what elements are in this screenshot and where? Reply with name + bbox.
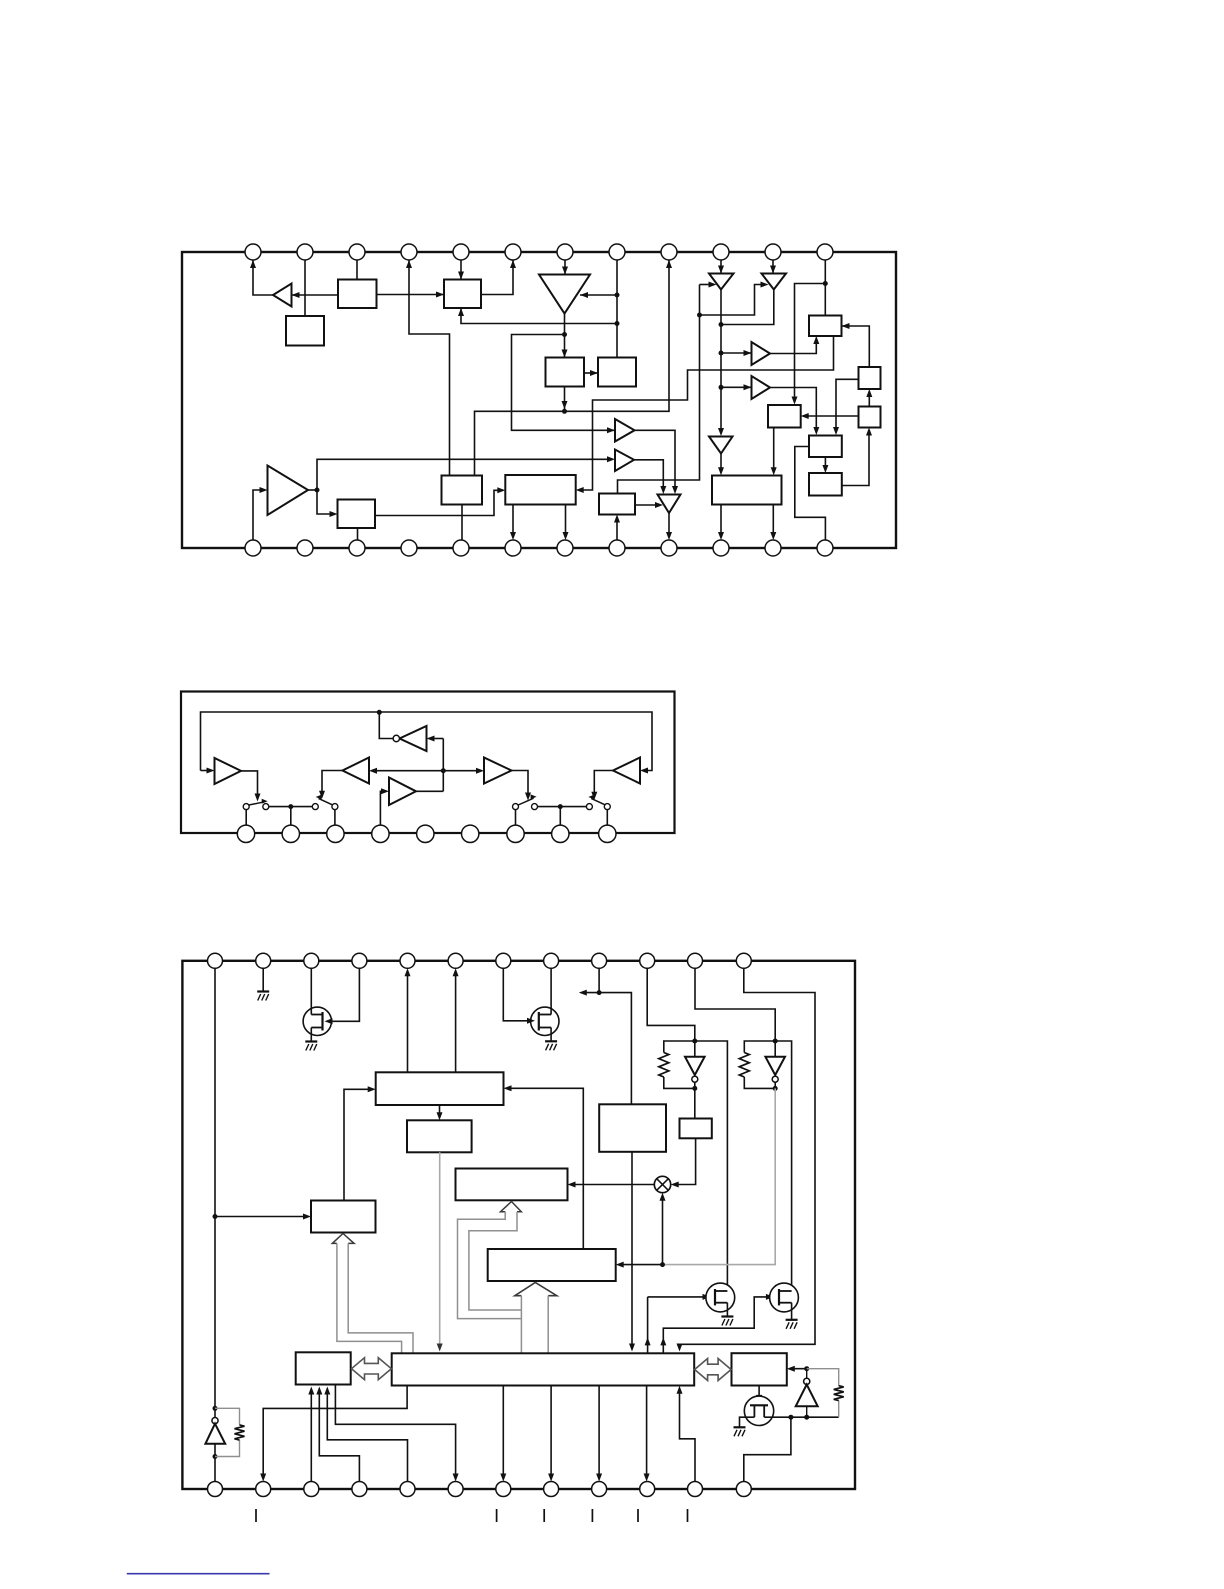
wire node to C11 input — [787, 1366, 807, 1372]
IC2 pin 2 — [282, 825, 299, 842]
amplifier A2 (large inverted) — [539, 275, 590, 314]
switch SW2 contact a — [312, 804, 318, 810]
wire pin 13 to A9 input — [253, 487, 268, 540]
buffer A24 — [484, 758, 512, 784]
IC1 bottom pin 21 — [661, 540, 677, 556]
block B8 — [442, 476, 483, 505]
block B6 — [809, 316, 842, 337]
IC1 top pin 1 — [245, 244, 261, 260]
wire pin 10 to A3 — [718, 260, 724, 274]
junction dot — [719, 351, 724, 356]
hollow arrow bus-to-C8 head — [515, 1282, 557, 1295]
IC3 bottom pin 16 — [352, 1482, 367, 1497]
hollow arrow bus-to-C4 shaft inner — [337, 1243, 402, 1353]
wire pin 10 to inverter cell 1 — [647, 968, 695, 1041]
wire Q3 source to ground — [726, 1303, 728, 1317]
IC1 bottom pin 17 — [453, 540, 469, 556]
IC1 bottom pin 14 — [297, 540, 313, 556]
wire node to pin 8 — [559, 807, 561, 826]
IC1 top pin 3 — [349, 244, 365, 260]
wire node to pin 2 — [290, 807, 292, 826]
wire Q3 gate lead — [648, 1294, 711, 1300]
junction dot — [773, 1039, 778, 1044]
wire SW1 to pin 1 — [245, 810, 247, 826]
IC3 top pin 4 — [352, 953, 367, 968]
block B3 — [444, 280, 481, 309]
switch SW4 contact b — [532, 804, 538, 810]
wire C1 bottom to block C2 — [437, 1105, 443, 1120]
tick mark — [687, 1509, 689, 1522]
buffer A25 — [389, 778, 416, 806]
block B16 — [505, 475, 575, 505]
wire net to A7 input — [721, 384, 752, 390]
switch SW2 contact b — [332, 804, 338, 810]
wire pin 23 to bus — [677, 1386, 696, 1482]
buffer A7 — [752, 376, 771, 399]
junction dot — [773, 1086, 778, 1091]
wire pin 1 net lower — [214, 1444, 216, 1482]
block C4 — [311, 1201, 376, 1233]
junction dot — [562, 409, 567, 414]
buffer A10 — [615, 450, 634, 472]
wire block B7 to B6 input — [842, 323, 870, 367]
wire net-C vertical — [442, 739, 444, 792]
wire cell1 to transistor Q3 drain — [695, 1041, 728, 1291]
wire A32 output (gray) — [665, 1088, 775, 1264]
switch SW1 contact b — [263, 804, 269, 810]
IC3 bottom pin 21 — [592, 1482, 607, 1497]
buffer A23 (left) — [343, 758, 370, 784]
block C6 — [599, 1104, 666, 1152]
tick mark — [496, 1509, 498, 1522]
wire pin 3 to Q1 drain — [310, 968, 312, 1014]
hollow arrow bus-to-C3 shaft inner — [469, 1212, 522, 1310]
block B11 — [859, 407, 881, 428]
wire net-C to A22 input — [427, 736, 444, 742]
IC1 bottom pin 20 — [609, 540, 625, 556]
wire pin 11 to inverter cell 2 — [695, 968, 775, 1041]
junction dot — [597, 990, 602, 995]
IC3 bottom pin 24 — [736, 1482, 751, 1497]
wire A3 output vertical — [718, 290, 724, 437]
block B1 — [338, 280, 377, 309]
buffer A1 (left-pointing) — [273, 284, 292, 307]
buffer A6 — [752, 342, 771, 365]
wire pin 20 to B13 bottom — [614, 515, 620, 541]
IC1 top pin 4 — [401, 244, 417, 260]
wire B7 to block B10 top — [833, 379, 859, 435]
wire bus to pin 21 — [596, 1386, 602, 1482]
block B9 — [768, 405, 801, 428]
buffer A21 — [215, 758, 242, 784]
wire B1 to B3 — [377, 292, 445, 298]
wire B1 to A1 input — [292, 292, 339, 298]
IC3 top pin 9 — [592, 953, 607, 968]
tick mark — [591, 1509, 593, 1522]
junction dot — [692, 1086, 697, 1091]
transistor Q4 — [770, 1283, 799, 1312]
IC1 top pin 5 — [453, 244, 469, 260]
block B2 — [286, 316, 324, 346]
IC1 bottom pin 22 — [713, 540, 729, 556]
wire bus to pin 22 — [644, 1386, 650, 1482]
IC3 top pin 1 — [208, 953, 223, 968]
IC1 bottom pin 23 — [765, 540, 781, 556]
wire node to block B8 top / pin 9 — [475, 260, 673, 476]
amplifier A9 (large) — [268, 466, 309, 516]
wire B13 to A11 input — [635, 502, 663, 508]
wire SW1 to SW2 — [269, 806, 313, 808]
wire net-L to A3 input — [700, 282, 717, 288]
IC3 top pin 5 — [400, 953, 415, 968]
tick mark — [255, 1509, 257, 1522]
resistor R1 — [659, 1053, 669, 1078]
wire bus to pin 20 — [548, 1386, 554, 1482]
junction dot — [692, 1039, 697, 1044]
resistor R2 loop — [744, 1041, 775, 1088]
junction dot — [719, 322, 724, 327]
transistor Q2 — [531, 1007, 559, 1035]
block B7 — [859, 367, 881, 389]
junction dot — [213, 1454, 218, 1459]
IC2 outline — [181, 692, 675, 834]
switch SW2 lever — [316, 795, 333, 805]
double arrow bus-C11 — [695, 1359, 732, 1381]
junction dot — [615, 293, 620, 298]
wire C11 to transistor Q5 gate — [756, 1386, 762, 1403]
junction dot — [213, 1406, 218, 1411]
wire pin 15 to C10 — [308, 1387, 314, 1482]
wire pin 4 to block B8 top — [406, 260, 450, 476]
junction dot — [213, 1214, 218, 1219]
block C2 — [407, 1120, 472, 1152]
wire A2-output branch to buffer A5 input — [512, 335, 616, 434]
resistor R4 loop (gray) — [215, 1408, 240, 1456]
junction dot — [377, 710, 382, 715]
IC1 top pin 10 — [713, 244, 729, 260]
switch SW4 contact a — [513, 804, 519, 810]
wire node stub arrow — [579, 990, 599, 996]
double arrow C10-bus — [352, 1358, 392, 1380]
wire pin 8 to block B5 top — [616, 260, 618, 358]
inverter A34 (up, bubble) — [205, 1418, 225, 1444]
IC1 top pin 2 — [297, 244, 313, 260]
IC2 pin 5 — [417, 825, 434, 842]
block B4 — [546, 358, 585, 387]
IC2 pin 7 — [507, 825, 524, 842]
IC1 top pin 6 — [505, 244, 521, 260]
wire pin 16 to C10 — [316, 1387, 359, 1482]
wire A10 output to mixer A11 top — [634, 460, 666, 494]
wire A7 output to block B10 top — [770, 388, 819, 436]
IC2 pin 6 — [462, 825, 479, 842]
switch SW3 contact b — [604, 804, 610, 810]
block C8 — [488, 1249, 616, 1281]
wire net-C to A23 and A24 inputs — [369, 768, 484, 774]
wire pin 4 to A25 input — [380, 788, 389, 825]
wire net-L vertical to block B13 top — [618, 285, 700, 494]
wire bus to transistor Q3 gate — [645, 1297, 651, 1353]
tick mark — [543, 1509, 545, 1522]
ground — [786, 1320, 798, 1329]
wire node pin8-net to B3 bottom — [458, 308, 617, 324]
wire SW4 to SW3 — [538, 806, 587, 808]
wire B4 bottom to node — [562, 387, 568, 412]
wire C6 bottom to bus register — [629, 1152, 635, 1352]
IC3 bottom pin 22 — [640, 1482, 655, 1497]
IC3 outline — [182, 961, 855, 1489]
wire C4 top to block C1 input — [344, 1086, 376, 1200]
IC3 bottom pin 20 — [544, 1482, 559, 1497]
ground — [305, 1042, 317, 1051]
inverter A22 (left, bubble) — [393, 726, 426, 751]
junction dot — [660, 1262, 665, 1267]
wire B14 to pin 23 — [770, 505, 776, 541]
IC1 top pin 7 — [557, 244, 573, 260]
IC1 top pin 9 — [661, 244, 677, 260]
IC3 top pin 11 — [688, 953, 703, 968]
wire pin 7 to Q2 gate — [503, 968, 535, 1024]
block C3 — [456, 1169, 568, 1201]
wire B12 to B11 bottom — [842, 428, 872, 486]
buffer A5 — [615, 419, 635, 442]
switch SW3 lever — [588, 795, 605, 805]
wire C1 to pin 6 — [453, 968, 459, 1072]
junction dot — [315, 488, 320, 493]
IC2 pin 9 — [599, 825, 616, 842]
inverter A3 (inverted) — [709, 274, 734, 290]
wire B15 to block B16 input — [375, 487, 505, 515]
mixer X1 (multiplier) — [654, 1176, 670, 1192]
wire Q2 source to ground — [550, 1028, 552, 1042]
ground — [734, 1427, 746, 1436]
inverter A33 (up, bubble) — [796, 1369, 818, 1418]
wire A11 output to pin 21 — [666, 513, 672, 540]
wire pin1-net to block C4 input — [215, 1214, 311, 1220]
IC3 top pin 10 — [640, 953, 655, 968]
IC1 bottom pin 16 — [401, 540, 417, 556]
IC1 top pin 11 — [765, 244, 781, 260]
wire bus to pin 14 — [260, 1386, 407, 1482]
IC3 top pin 8 — [544, 953, 559, 968]
IC1 top pin 12 — [817, 244, 833, 260]
wire feedback to buffer A21 input — [201, 768, 215, 774]
junction dot — [788, 1415, 793, 1420]
ground — [545, 1041, 557, 1050]
wire A22 output to feedback — [379, 712, 393, 738]
feedback wire top — [201, 712, 653, 774]
junction dot — [804, 1366, 809, 1371]
wire B10 to pin 24 — [795, 447, 826, 541]
IC3 top pin 6 — [448, 953, 463, 968]
IC1 bottom pin 18 — [505, 540, 521, 556]
switch SW3 contact a — [586, 804, 592, 810]
inverter A32 (inverted, bubble) — [765, 1041, 785, 1088]
block B15 — [338, 500, 376, 529]
wire B10 bottom to block B12 top — [822, 457, 828, 473]
wire pin 2 to ground — [262, 968, 264, 991]
IC3 top pin 12 — [736, 953, 751, 968]
IC3 top pin 7 — [496, 953, 511, 968]
wire A4 output to A3 net — [721, 290, 774, 325]
wire pin 5 to B3 top — [458, 260, 464, 280]
wire A2 output to B4 top — [562, 314, 568, 358]
junction dot — [719, 385, 724, 390]
wire pin 17 to C10 — [324, 1387, 407, 1482]
wire pin 7 to A2 — [562, 260, 568, 275]
wire B16 to pin 18 — [510, 505, 516, 541]
wire pin-12 net to block B9 top — [792, 284, 826, 405]
wire block B11 top to B7 bottom — [866, 389, 872, 407]
wire B16 to pin 19 — [563, 505, 569, 541]
wire C2 bottom to bus register (gray) — [437, 1152, 443, 1351]
block C10 (left register) — [296, 1352, 351, 1384]
wire SW4 to pin 7 — [515, 810, 517, 826]
resistor R3 — [834, 1386, 844, 1401]
wire B3 to pin 6 — [481, 260, 516, 295]
wire A23 output to switch SW2 — [319, 771, 343, 799]
wire A21 output to switch SW1 — [241, 771, 261, 802]
IC2 pin 1 — [237, 825, 254, 842]
junction dot — [558, 804, 563, 809]
wire pin8-net to A2 input — [580, 292, 617, 298]
wire net to A6 input — [721, 350, 752, 356]
IC1 bottom pin 13 — [245, 540, 261, 556]
wire B14 to pin 22 — [718, 505, 724, 541]
wire A9 node to buffer A10 input — [317, 456, 615, 490]
wire A9 node to block B15 input — [317, 490, 338, 517]
resistor R4 — [235, 1425, 245, 1440]
wire pin 9 node — [598, 968, 600, 992]
wire node to block C8 input — [616, 1262, 663, 1268]
wire SW2 to pin 3 — [334, 810, 336, 826]
wire pin 1 bus — [214, 968, 216, 1417]
wire net-L to A4 input — [700, 282, 769, 316]
IC3 bottom pin 19 — [496, 1482, 511, 1497]
wire C10 to pin 18 — [335, 1385, 458, 1482]
resistor R1 loop — [664, 1041, 695, 1088]
wire A5 output to mixer A11 top — [635, 430, 679, 494]
wire A6 output to block B6 bottom — [770, 336, 819, 354]
wire B6 top to pin 12 — [824, 260, 826, 316]
inverter A8 (inverted) — [709, 437, 733, 454]
junction dot — [697, 313, 702, 318]
wire Q5 source to ground — [740, 1417, 755, 1427]
wire pin 12 to bus register — [677, 968, 816, 1351]
hollow arrow bus-to-C3 shaft outer — [458, 1212, 522, 1319]
inverter A26 (left) — [613, 758, 640, 784]
switch SW4 lever — [518, 794, 536, 805]
wire Q5 drain node — [764, 1416, 839, 1418]
junction dot — [562, 332, 567, 337]
tick mark — [637, 1509, 639, 1522]
IC1 outline — [182, 252, 896, 548]
switch SW1 lever — [249, 799, 268, 805]
footer rule — [127, 1573, 270, 1575]
wire cell2 to transistor Q4 drain — [775, 1041, 791, 1291]
IC2 pin 3 — [327, 825, 344, 842]
wire A8 output to block B14 top — [718, 454, 724, 476]
junction dot — [804, 1415, 809, 1420]
resistor R2 — [739, 1053, 749, 1078]
wire B4 to B5 — [584, 370, 598, 376]
resistor R3 loop (gray) — [807, 1369, 839, 1418]
wire pin 8 to Q2 drain — [550, 968, 552, 1014]
wire B9 bottom to block B14 top — [771, 428, 777, 476]
switch SW1 contact a — [243, 804, 249, 810]
wire B6 bottom to B16 input — [576, 336, 834, 493]
wire block C8 net to C1 input — [504, 1085, 584, 1249]
wire A1 output to pin 1 — [250, 260, 273, 295]
wire pin 2 to block B2 — [304, 260, 306, 316]
wire pin 3 to block B1 — [356, 260, 358, 280]
block B10 — [809, 436, 842, 458]
wire pin 11 to A4 — [770, 260, 776, 274]
ground — [257, 992, 269, 1001]
wire C7 bottom to mixer X1 — [671, 1138, 696, 1187]
bus register — [392, 1353, 695, 1385]
wire C1 to pin 5 — [405, 968, 411, 1072]
junction dot — [288, 804, 293, 809]
wire Q4 source to ground — [791, 1303, 793, 1320]
wire node to block C6 top — [599, 993, 631, 1105]
hollow arrow bus-to-C4 shaft outer — [348, 1243, 413, 1353]
IC2 pin 4 — [372, 825, 389, 842]
ground — [721, 1317, 733, 1326]
inverter A11 (inverted) — [658, 495, 681, 514]
block C1 — [376, 1072, 504, 1105]
wire X1 to block C3 input — [568, 1182, 655, 1188]
IC3 top pin 3 — [304, 953, 319, 968]
junction dot — [823, 281, 828, 286]
wire B8 bottom to pin 17 — [461, 505, 463, 541]
transistor Q3 — [706, 1283, 735, 1312]
wire A26 output to switch SW3 — [591, 771, 613, 800]
inverter A4 (inverted) — [762, 274, 787, 290]
IC3 bottom pin 18 — [448, 1482, 463, 1497]
wire A24 output to switch SW4 — [512, 771, 532, 801]
wire bus to pin 19 — [500, 1386, 506, 1482]
IC3 bottom pin 15 — [304, 1482, 319, 1497]
junction dot — [441, 768, 446, 773]
block C7 — [680, 1119, 712, 1139]
hollow arrow bus-to-C8 shaft — [521, 1296, 548, 1354]
IC3 bottom pin 23 — [688, 1482, 703, 1497]
IC1 top pin 8 — [609, 244, 625, 260]
IC3 bottom pin 17 — [400, 1482, 415, 1497]
wire SW3 to pin 9 — [606, 810, 608, 826]
wire pin 4 to Q1 gate — [325, 968, 360, 1024]
transistor Q1 — [303, 1007, 331, 1035]
block B14 — [712, 476, 782, 505]
wire node to mixer X1 — [660, 1193, 666, 1265]
junction dot — [615, 321, 620, 326]
block B5 — [598, 358, 636, 387]
IC1 bottom pin 15 — [349, 540, 365, 556]
hollow arrow bus-to-C3 head — [501, 1202, 522, 1212]
block B12 — [809, 473, 842, 496]
wire B11 to block B9 input — [801, 413, 859, 419]
block B13 — [599, 494, 635, 515]
wire A25 output to net-C — [416, 790, 443, 792]
IC1 bottom pin 19 — [557, 540, 573, 556]
transistor Q5 (rotated) — [744, 1396, 773, 1425]
wire A9 output node — [308, 489, 317, 491]
IC1 bottom pin 24 — [817, 540, 833, 556]
wire A31 output to block C7 — [694, 1088, 696, 1118]
block C11 (right register) — [732, 1353, 787, 1385]
wire bus to transistor Q4 gate — [660, 1294, 774, 1353]
